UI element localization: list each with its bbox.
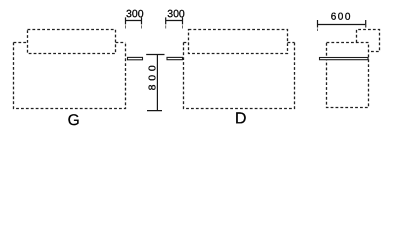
svg-text:800: 800 xyxy=(147,61,159,90)
svg-text:300: 300 xyxy=(126,8,144,20)
svg-text:D: D xyxy=(235,110,247,127)
svg-text:600: 600 xyxy=(331,12,352,23)
svg-text:300: 300 xyxy=(167,8,185,20)
svg-text:G: G xyxy=(68,112,80,129)
